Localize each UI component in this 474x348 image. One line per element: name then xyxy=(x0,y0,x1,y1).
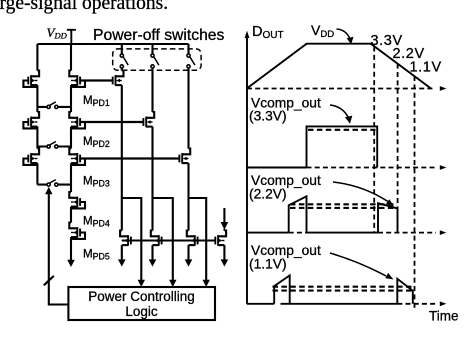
svg-text:MPD4: MPD4 xyxy=(83,216,110,229)
svg-text:Logic: Logic xyxy=(125,304,158,319)
svg-text:MPD2: MPD2 xyxy=(83,136,110,149)
svg-text:1.1V: 1.1V xyxy=(410,59,442,75)
svg-text:VDD: VDD xyxy=(47,25,68,41)
svg-text:Power Controlling: Power Controlling xyxy=(88,289,195,304)
svg-text:MPD5: MPD5 xyxy=(83,249,110,262)
svg-text:rge-signal operations.: rge-signal operations. xyxy=(0,0,168,14)
svg-text:(1.1V): (1.1V) xyxy=(249,256,287,271)
svg-text:Power-off switches: Power-off switches xyxy=(93,27,225,44)
svg-text:Time: Time xyxy=(429,308,459,323)
svg-text:(2.2V): (2.2V) xyxy=(249,186,287,201)
svg-text:DOUT: DOUT xyxy=(252,24,284,41)
svg-text:VDD: VDD xyxy=(311,22,334,40)
svg-text:MPD3: MPD3 xyxy=(83,176,110,189)
svg-text:(3.3V): (3.3V) xyxy=(249,109,287,124)
svg-text:MPD1: MPD1 xyxy=(83,95,110,108)
